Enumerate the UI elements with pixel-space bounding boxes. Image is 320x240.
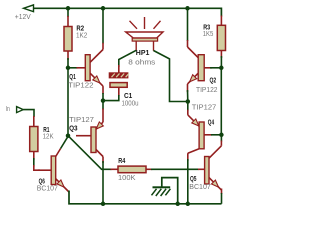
wire Q3 collector to bottom rail (102, 161, 104, 204)
wire top +12V rail (34, 8, 222, 16)
svg-text:BC107: BC107 (37, 184, 58, 193)
node dot Q1 base (66, 66, 71, 71)
wire R2 bottom to Q1 base node (67, 58, 69, 68)
transistor Q5 BC107 (220, 141, 222, 146)
wire Q2 emitter down to node B (187, 90, 189, 102)
svg-text:1K2: 1K2 (76, 30, 87, 39)
svg-text:Q4: Q4 (208, 119, 214, 126)
wire right vertical to Q4 base node (220, 68, 222, 135)
svg-text:TIP122: TIP122 (68, 81, 93, 90)
svg-text:In: In (6, 104, 10, 113)
node dot Q4 base (219, 133, 224, 138)
resistor R4 100K (111, 168, 120, 170)
wire speaker right leg to node B (154, 51, 188, 102)
svg-text:Q2: Q2 (210, 78, 217, 85)
wire Q6 collector to node (61, 136, 68, 148)
svg-text:+12V: +12V (15, 12, 31, 21)
node dot rail-Q2 (185, 6, 190, 11)
wire Q2 collector drop (187, 8, 189, 41)
svg-text:TIP122: TIP122 (196, 85, 218, 94)
wire Q1 base net (68, 67, 78, 69)
wire R1 bottom to Q6 base (33, 158, 35, 167)
wire Q1 collector drop (102, 8, 104, 43)
wire Q4 base to right vertical (211, 134, 221, 136)
wire Q6 emitter to bottom rail (69, 191, 222, 204)
wire right vertical to Q5 collector (220, 135, 222, 142)
node B dot (186, 99, 191, 104)
wire R3 bottom to Q2 base node (220, 56, 222, 68)
transistor Q1 TIP122 (102, 43, 104, 50)
wire Q1 emitter to node A (102, 93, 104, 101)
wire input to R1 (23, 110, 34, 117)
node dot Q4 collector rail (186, 202, 191, 207)
wire node A down to Q3 (102, 101, 104, 110)
node dot R3-Q2 base (219, 66, 224, 71)
node dot rail-Q1 (101, 6, 106, 11)
speaker HP1 8 ohms (130, 21, 138, 29)
wire R4 right to Q5 base (151, 168, 199, 170)
wire node to R4 diagonal (68, 136, 112, 170)
svg-text:R4: R4 (118, 158, 125, 165)
wire Q2 base to R3 node (210, 67, 221, 69)
svg-text:BC107: BC107 (189, 182, 211, 191)
node dot Q3 collector rail (101, 202, 106, 207)
resistor R2 1K2 (67, 16, 69, 27)
wire R1-Q6 corner (34, 165, 40, 170)
wire left vertical to lower node (67, 68, 69, 136)
svg-text:100K: 100K (118, 173, 136, 182)
resistor R3 1K5 (220, 16, 222, 27)
wire Q5 emitter red stub (221, 189, 223, 195)
transistor Q6 BC107 (38, 169, 51, 171)
node dot rail-R2 (66, 6, 71, 11)
resistor R1 12K (33, 116, 35, 127)
transistor Q4 TIP127 (187, 110, 189, 115)
node dot lower-left bases (66, 133, 71, 138)
svg-text:TIP127: TIP127 (69, 115, 94, 124)
svg-text:1K5: 1K5 (203, 29, 214, 38)
capacitor C1 1000u (118, 65, 120, 74)
ground symbol (162, 178, 178, 204)
supply arrow +12V (24, 5, 34, 12)
transistor Q3 TIP127 (102, 109, 104, 123)
svg-text:1000u: 1000u (122, 99, 139, 108)
wire C1 bottom to node A (103, 95, 119, 101)
svg-text:8 ohms: 8 ohms (128, 57, 155, 66)
svg-text:12K: 12K (43, 132, 54, 141)
wire speaker left leg to C1 (119, 50, 136, 67)
wire Q4 collector to rail (187, 159, 189, 204)
wire Q5 emitter to bottom rail corner (221, 193, 223, 204)
svg-text:Q3: Q3 (69, 125, 78, 132)
node A dot (101, 98, 106, 103)
svg-text:HP1: HP1 (136, 50, 150, 57)
svg-text:TIP127: TIP127 (192, 103, 217, 112)
wire node B to Q4 emitter (187, 102, 189, 111)
wire R2 top (67, 8, 69, 17)
transistor Q2 TIP122 (187, 40, 189, 47)
node dot ground-rail (175, 202, 180, 207)
